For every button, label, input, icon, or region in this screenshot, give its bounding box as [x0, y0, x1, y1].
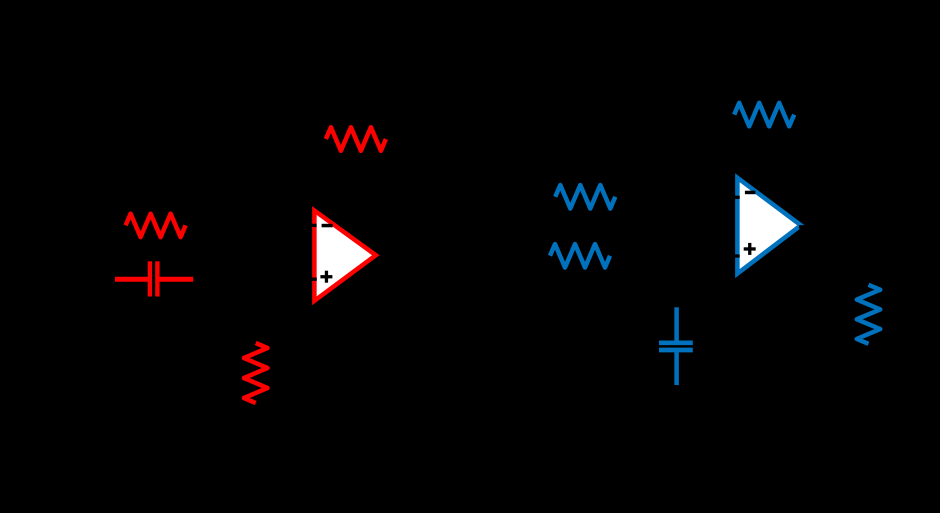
resistor R3 (red, vertical to ground): [244, 343, 268, 403]
wire (black output wire over U2 apex): [799, 225, 814, 228]
wire (black stub into U1 inverting input): [304, 224, 317, 227]
resistor R1 (red, input to inverting side): [126, 214, 186, 238]
resistor R4 (blue, feedback, top): [734, 103, 794, 127]
wire (black stub into U1 non-inverting input): [304, 278, 317, 281]
wire (black stub into U2 inverting input): [727, 196, 740, 199]
resistor R2 (red, feedback, top): [326, 127, 386, 151]
capacitor C1 (red, input): [115, 261, 193, 296]
resistor R7 (blue, vertical load): [857, 285, 881, 344]
pin label minus U2: [745, 191, 756, 195]
wire (black stub into U2 non-inverting input): [727, 254, 740, 257]
resistor R6 (blue, to non-inverting input): [550, 244, 610, 267]
pin label plus U2: [744, 243, 756, 255]
op-amp U2 (blue): [737, 178, 801, 274]
op-amp U1 (red): [314, 211, 375, 301]
capacitor C2 (blue, vertical): [659, 307, 693, 385]
pin label minus U1: [322, 224, 333, 228]
pin label plus U1: [320, 271, 332, 283]
resistor R5 (blue, to inverting input): [555, 185, 615, 209]
